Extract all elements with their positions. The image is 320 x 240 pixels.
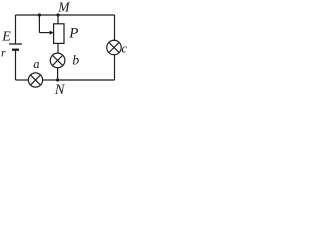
wire rheostat top terminal bbox=[57, 15, 59, 24]
junction dot at wiper tap bbox=[38, 13, 41, 16]
wire left vertical upper (to battery) bbox=[15, 15, 17, 44]
junction dot at M bbox=[56, 13, 59, 16]
junction dot at N bbox=[56, 78, 59, 81]
svg-text:P: P bbox=[68, 26, 78, 42]
wire wiper vertical bbox=[38, 15, 40, 33]
wire bottom horizontal left (to lamp a) bbox=[16, 79, 29, 81]
wire top horizontal bbox=[16, 14, 115, 16]
wire right vertical lower (lamp c to bottom) bbox=[114, 55, 116, 80]
rheostat P body bbox=[54, 24, 64, 44]
lamp c bbox=[107, 40, 122, 55]
lamp a bbox=[28, 73, 42, 87]
wire bottom horizontal middle (lamp a to node N) bbox=[43, 79, 58, 81]
svg-text:M: M bbox=[57, 0, 70, 14]
rheostat wiper arrowhead bbox=[50, 31, 54, 35]
wire right vertical upper (to lamp c) bbox=[114, 15, 116, 40]
svg-text:E: E bbox=[1, 30, 11, 45]
svg-text:N: N bbox=[54, 82, 66, 97]
svg-text:b: b bbox=[72, 53, 79, 68]
wire rheostat bottom terminal (to lamp b) bbox=[57, 43, 59, 53]
svg-text:a: a bbox=[33, 57, 39, 71]
wire bottom horizontal right (node N to right side) bbox=[58, 79, 115, 81]
battery E with internal resistance r bbox=[9, 44, 22, 50]
lamp b bbox=[50, 53, 65, 68]
svg-text:r: r bbox=[1, 46, 6, 60]
wire lamp b to node N bbox=[57, 68, 59, 80]
wire wiper horizontal bbox=[39, 32, 50, 34]
svg-text:c: c bbox=[122, 42, 128, 56]
wire left vertical lower (battery to bottom) bbox=[15, 51, 17, 81]
